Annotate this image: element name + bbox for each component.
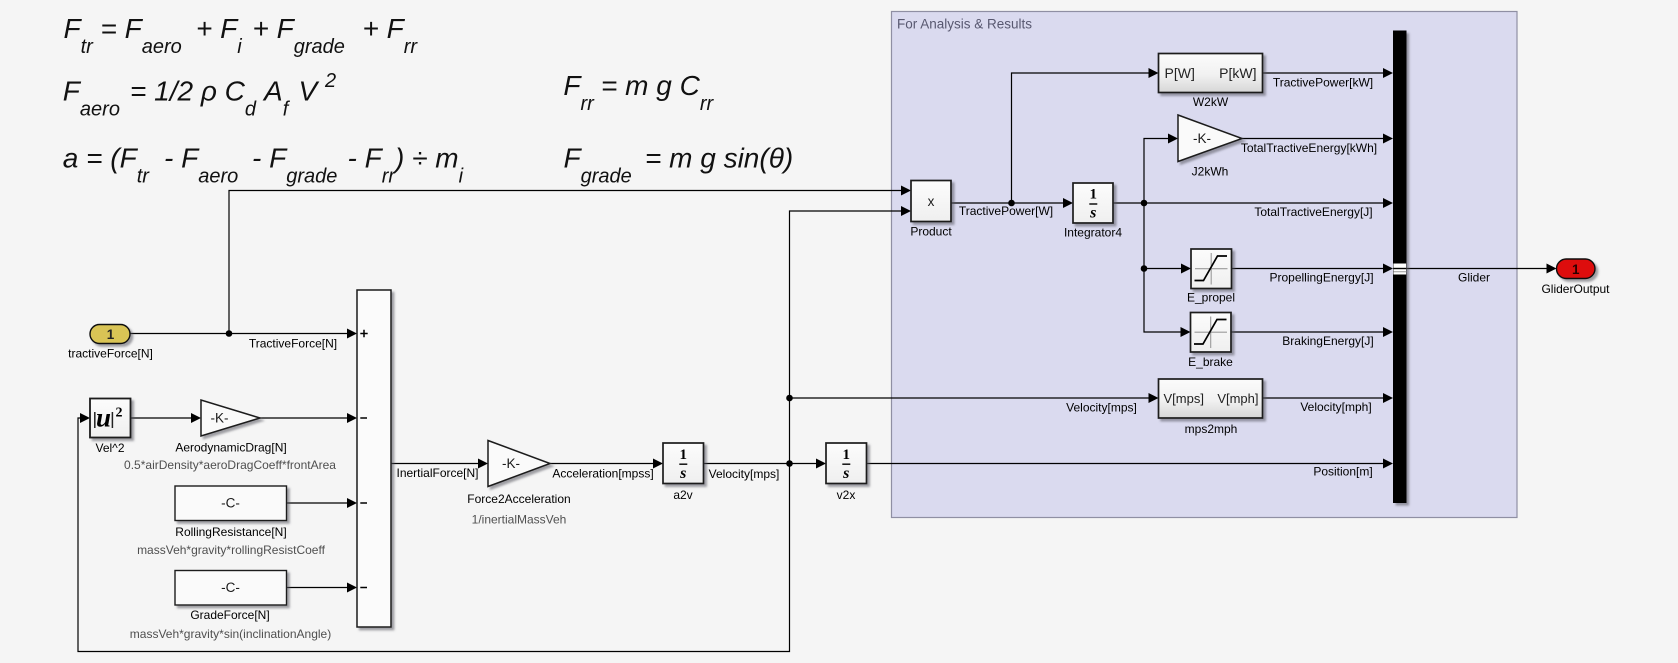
annotation equation Ftr = Faero + Fi + Fgrade + Frr xyxy=(64,13,419,58)
gain J2kWh xyxy=(1178,115,1242,162)
svg-text:massVeh*gravity*rollingResistC: massVeh*gravity*rollingResistCoeff xyxy=(137,543,326,557)
signal TractivePower[W] xyxy=(959,204,1053,218)
svg-text:2: 2 xyxy=(116,406,123,421)
signal Position[m] xyxy=(1313,465,1372,479)
wire E_brake to bus BrakingEnergy[J] xyxy=(1231,327,1393,337)
svg-text:Velocity[mps]: Velocity[mps] xyxy=(709,467,780,481)
svg-text:Vel^2: Vel^2 xyxy=(96,441,125,455)
svg-text:1/inertialMassVeh: 1/inertialMassVeh xyxy=(472,513,567,527)
svg-text:J2kWh: J2kWh xyxy=(1192,165,1229,179)
svg-text:E_propel: E_propel xyxy=(1187,291,1235,305)
wire RollingResistance to Sum input 3 xyxy=(287,498,358,508)
wire J2kWh to bus TotalTractiveEnergy[kWh] xyxy=(1242,134,1393,144)
svg-text:v2x: v2x xyxy=(837,488,856,502)
annotation equation a = (Ftr - Faero - Fgrade - Frr) / mi xyxy=(63,142,464,187)
wire Velocity to Product input 2 xyxy=(790,206,912,398)
svg-text:Velocity[mps]: Velocity[mps] xyxy=(1066,401,1137,415)
node TractivePower junction xyxy=(1008,200,1015,207)
integrator a2v xyxy=(663,443,704,484)
svg-text:massVeh*gravity*sin(inclinatio: massVeh*gravity*sin(inclinationAngle) xyxy=(130,627,331,641)
svg-text:s: s xyxy=(1089,205,1096,222)
wire to E_propel xyxy=(1144,264,1191,274)
label AerodynamicDrag[N] xyxy=(175,441,286,455)
wire Integrator4 to bus TotalTractiveEnergy[J] xyxy=(1113,198,1393,208)
saturation E_brake xyxy=(1191,313,1232,353)
svg-text:u: u xyxy=(96,403,111,433)
node TractiveForce junction xyxy=(226,330,233,337)
svg-text:TractivePower[W]: TractivePower[W] xyxy=(959,204,1053,218)
node Integrator4 output junction xyxy=(1141,200,1148,207)
label GradeForce[N] xyxy=(190,608,269,622)
svg-text:TractiveForce[N]: TractiveForce[N] xyxy=(249,337,337,351)
label RollingResistance[N] xyxy=(175,525,286,539)
svg-text:TotalTractiveEnergy[J]: TotalTractiveEnergy[J] xyxy=(1254,205,1372,219)
sum block (vertical) xyxy=(357,290,391,627)
node Velocity junction lower xyxy=(786,460,793,467)
svg-text:-K-: -K- xyxy=(1193,131,1211,146)
wire TractiveForce branch to Product input 1 xyxy=(229,186,911,334)
annotation massVeh*gravity*sin(inclinationAngle) xyxy=(130,627,331,641)
svg-text:TractivePower[kW]: TractivePower[kW] xyxy=(1273,76,1373,90)
svg-text:-K-: -K- xyxy=(502,456,520,471)
wire bus to GliderOutput xyxy=(1407,264,1557,274)
signal BrakingEnergy[J] xyxy=(1282,334,1373,348)
label a2v xyxy=(673,488,692,502)
label Vel^2 xyxy=(96,441,125,455)
wire W2kW to bus TractivePower[kW] xyxy=(1263,68,1394,78)
wire AerodynamicDrag to Sum input 2 xyxy=(260,413,357,423)
signal TractivePower[kW] xyxy=(1273,76,1373,90)
signal Acceleration[mpss] xyxy=(552,467,653,481)
svg-text:1: 1 xyxy=(843,447,851,463)
annotation massVeh*gravity*rollingResistCoeff xyxy=(137,543,326,557)
svg-text:mps2mph: mps2mph xyxy=(1185,422,1238,436)
wire E_propel to bus PropellingEnergy[J] xyxy=(1232,264,1394,274)
svg-text:-K-: -K- xyxy=(211,411,229,426)
label Force2Acceleration xyxy=(467,492,570,506)
wire mps2mph to bus Velocity[mph] xyxy=(1263,393,1393,403)
svg-text:Acceleration[mpss]: Acceleration[mpss] xyxy=(552,467,653,481)
label mps2mph xyxy=(1185,422,1238,436)
svg-text:-C-: -C- xyxy=(221,496,240,511)
gain Force2Acceleration xyxy=(488,441,550,487)
wire Velocity to mps2mph xyxy=(790,393,1159,403)
svg-text:V[mph]: V[mph] xyxy=(1217,391,1258,406)
wire TractivePower to W2kW xyxy=(1012,68,1159,203)
label Integrator4 xyxy=(1064,226,1122,240)
constant GradeForce[N] xyxy=(175,571,287,606)
svg-text:GliderOutput: GliderOutput xyxy=(1541,282,1610,296)
subsystem mps2mph xyxy=(1159,379,1263,418)
svg-text:1: 1 xyxy=(1572,262,1580,277)
signal TotalTractiveEnergy[kWh] xyxy=(1241,141,1377,155)
wire a2v to v2x xyxy=(704,459,827,469)
signal PropellingEnergy[J] xyxy=(1269,271,1373,285)
annotation equation Faero = 1/2 rho Cd Af V^2 xyxy=(63,70,336,121)
subsystem W2kW xyxy=(1159,54,1263,93)
annotation 1/inertialMassVeh xyxy=(472,513,567,527)
label W2kW xyxy=(1193,95,1229,109)
signal InertialForce[N] xyxy=(396,466,478,480)
svg-text:RollingResistance[N]: RollingResistance[N] xyxy=(175,525,286,539)
svg-text:Velocity[mph]: Velocity[mph] xyxy=(1300,400,1371,414)
integrator Integrator4 xyxy=(1073,183,1113,223)
wire Velocity riser xyxy=(789,398,791,464)
svg-text:1: 1 xyxy=(107,327,115,342)
svg-text:TotalTractiveEnergy[kWh]: TotalTractiveEnergy[kWh] xyxy=(1241,141,1377,155)
svg-text:s: s xyxy=(679,465,686,482)
svg-text:E_brake: E_brake xyxy=(1188,355,1233,369)
wire to J2kWh gain xyxy=(1144,134,1178,204)
svg-text:1: 1 xyxy=(680,447,688,463)
node E branch junction xyxy=(1141,265,1148,272)
wire Product to Integrator4 xyxy=(951,198,1073,208)
gain AerodynamicDrag[N] xyxy=(201,400,260,436)
svg-text:-C-: -C- xyxy=(221,580,240,595)
label E_propel xyxy=(1187,291,1235,305)
signal Velocity[mps] into mps2mph xyxy=(1066,401,1137,415)
svg-text:P[W]: P[W] xyxy=(1165,65,1195,81)
wire velocity feedback to Vel^2 xyxy=(78,413,790,652)
label v2x xyxy=(837,488,856,502)
annotation equation Fgrade = m g sin(theta) xyxy=(564,143,794,188)
signal TotalTractiveEnergy[J] xyxy=(1254,205,1372,219)
annotation 0.5*airDensity*aeroDragCoeff*frontArea xyxy=(124,458,336,472)
svg-text:x: x xyxy=(928,194,935,209)
label GliderOutput xyxy=(1541,282,1610,296)
svg-text:For Analysis & Results: For Analysis & Results xyxy=(897,17,1032,32)
area annotation: For Analysis & Results panel xyxy=(892,12,1518,518)
integrator v2x xyxy=(826,443,867,484)
svg-text:Product: Product xyxy=(910,225,952,239)
wire energy branch down to E_brake xyxy=(1144,203,1191,337)
label J2kWh xyxy=(1192,165,1229,179)
svg-text:a2v: a2v xyxy=(673,488,692,502)
wire v2x to bus Position[m] xyxy=(867,459,1394,469)
signal Velocity[mps] after a2v xyxy=(709,467,780,481)
signal Velocity[mph] xyxy=(1300,400,1371,414)
svg-text:Integrator4: Integrator4 xyxy=(1064,226,1122,240)
svg-text:Position[m]: Position[m] xyxy=(1313,465,1372,479)
block Vel^2 |u|^2 xyxy=(90,399,131,438)
wire Force2Acceleration to a2v xyxy=(550,459,663,469)
label tractiveForce[N] xyxy=(68,347,153,361)
label E_brake xyxy=(1188,355,1233,369)
wire GradeForce to Sum input 4 xyxy=(287,583,358,593)
svg-text:0.5*airDensity*aeroDragCoeff*f: 0.5*airDensity*aeroDragCoeff*frontArea xyxy=(124,458,336,472)
svg-text:AerodynamicDrag[N]: AerodynamicDrag[N] xyxy=(175,441,286,455)
svg-text:Force2Acceleration: Force2Acceleration xyxy=(467,492,570,506)
saturation E_propel xyxy=(1191,249,1232,289)
label Product xyxy=(910,225,952,239)
svg-text:BrakingEnergy[J]: BrakingEnergy[J] xyxy=(1282,334,1373,348)
constant RollingResistance[N] xyxy=(175,486,287,521)
svg-text:s: s xyxy=(842,465,849,482)
signal Glider xyxy=(1458,271,1490,285)
wire tractiveForce to Sum input 1 xyxy=(130,329,357,339)
svg-text:GradeForce[N]: GradeForce[N] xyxy=(190,608,269,622)
block Product xyxy=(911,181,951,222)
svg-text:tractiveForce[N]: tractiveForce[N] xyxy=(68,347,153,361)
svg-text:PropellingEnergy[J]: PropellingEnergy[J] xyxy=(1269,271,1373,285)
svg-text:P[kW]: P[kW] xyxy=(1219,65,1256,81)
annotation equation Frr = m g Crr xyxy=(563,70,714,115)
svg-text:W2kW: W2kW xyxy=(1193,95,1229,109)
svg-text:1: 1 xyxy=(1090,187,1098,203)
svg-text:Glider: Glider xyxy=(1458,271,1490,285)
svg-text:InertialForce[N]: InertialForce[N] xyxy=(396,466,478,480)
svg-text:V[mps]: V[mps] xyxy=(1164,391,1204,406)
signal TractiveForce[N] xyxy=(249,337,337,351)
wire Sum to Force2Acceleration xyxy=(391,459,488,469)
inport 1 tractiveForce[N] xyxy=(90,325,130,344)
outport 1 GliderOutput xyxy=(1557,259,1596,279)
wire Vel^2 to AerodynamicDrag gain xyxy=(131,413,202,423)
bus creator (black bar) xyxy=(1393,31,1407,504)
node Velocity junction upper xyxy=(786,395,793,402)
